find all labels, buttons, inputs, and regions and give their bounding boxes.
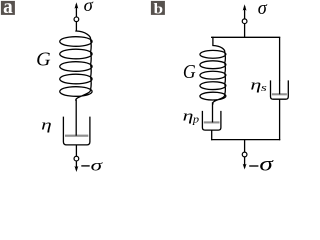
svg-text:s: s xyxy=(261,82,267,94)
node circle top (panel a) xyxy=(74,17,79,22)
dashpot b-left cup xyxy=(202,111,221,130)
svg-text:b: b xyxy=(154,2,163,18)
svg-text:σ: σ xyxy=(91,158,104,173)
dashpot b-left piston rod xyxy=(212,102,214,122)
node circle bottom (panel b) xyxy=(242,152,247,157)
svg-text:a: a xyxy=(3,0,13,18)
svg-text:η: η xyxy=(41,118,52,134)
dashpot b-right piston rod xyxy=(279,80,281,94)
arrow sigma top (panel b) xyxy=(243,4,247,19)
wire cup-to-bottombar left (panel b) xyxy=(211,130,213,140)
svg-text:η: η xyxy=(183,109,194,125)
arrow minus-sigma bottom (panel b) xyxy=(243,157,247,170)
panel label box a xyxy=(1,0,15,18)
svg-text:p: p xyxy=(192,114,200,126)
arrow sigma top (panel a) xyxy=(75,2,79,17)
node circle top (panel b) xyxy=(242,19,247,24)
svg-text:σ: σ xyxy=(259,155,274,174)
svg-text:σ: σ xyxy=(84,0,95,15)
wire right cup to bottom bar (panel b) xyxy=(279,99,281,140)
top bar (panel b) xyxy=(211,36,280,38)
dashpot b-right cup xyxy=(271,80,289,99)
svg-text:G: G xyxy=(183,61,196,83)
wire circle-to-spring (panel a) xyxy=(75,22,77,32)
panel label box b xyxy=(151,1,165,18)
wire cup-to-circle (panel a) xyxy=(75,145,77,156)
dashpot a cup xyxy=(63,117,90,145)
spring G (panel a) xyxy=(60,31,92,102)
dashpot a piston plate xyxy=(65,135,88,137)
label minus sign (panel a) xyxy=(81,165,89,167)
dashpot b-right piston plate xyxy=(272,93,287,95)
wire top bar to right cup (panel b) xyxy=(279,37,281,80)
bottom bar (panel b) xyxy=(211,139,280,141)
svg-text:σ: σ xyxy=(258,0,268,19)
spring G (panel b) xyxy=(200,37,226,105)
label minus sign (panel b) xyxy=(249,165,258,167)
node circle bottom (panel a) xyxy=(74,156,79,161)
arrow minus-sigma bottom (panel a) xyxy=(75,161,79,172)
svg-text:G: G xyxy=(36,49,51,71)
wire bar-to-circle bottom (panel b) xyxy=(244,140,246,153)
dashpot a piston rod xyxy=(75,100,77,136)
svg-text:η: η xyxy=(250,78,261,94)
dashpot b-left piston plate xyxy=(204,121,220,123)
wire circle-to-bar (panel b) xyxy=(244,24,246,38)
